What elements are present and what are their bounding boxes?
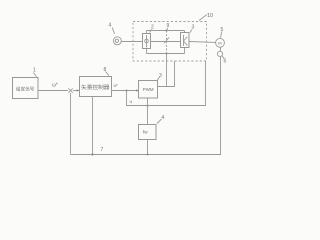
wire Q2 to motor <box>189 41 216 44</box>
right switch top stub <box>184 31 186 33</box>
top rail <box>147 30 185 32</box>
controller box 8 <box>80 77 112 97</box>
shaft wire <box>220 47 222 51</box>
wire block1 to sum <box>38 90 68 92</box>
switch box Q1 <box>143 34 151 49</box>
Q1 inner symbol <box>146 35 148 48</box>
motor circle 5 <box>216 38 225 47</box>
node tap <box>126 90 128 92</box>
label 8 leader <box>106 72 110 76</box>
label 9 leader <box>166 28 169 31</box>
svg-text:4: 4 <box>109 23 112 29</box>
source circle 4 <box>113 37 121 45</box>
module dashed box 10 <box>133 22 207 62</box>
DW box 4 <box>139 125 157 140</box>
label 10 leader <box>199 15 207 21</box>
wire sum feedback <box>70 93 72 155</box>
svg-text:6: 6 <box>224 59 227 65</box>
tach down wire <box>71 57 221 155</box>
svg-text:4: 4 <box>162 115 165 121</box>
wire controller to PWM <box>112 90 139 92</box>
junction top <box>166 30 168 32</box>
label 6 leader <box>222 56 224 59</box>
svg-text:ω*: ω* <box>52 83 58 89</box>
svg-text:矢量控制器: 矢量控制器 <box>81 84 110 91</box>
svg-text:9: 9 <box>167 23 170 29</box>
wire sum to controller <box>73 90 79 92</box>
switch box Q2 <box>181 33 190 48</box>
svg-text:M: M <box>218 41 221 46</box>
node DW bottom <box>147 154 149 156</box>
label 3 leader <box>157 77 159 80</box>
svg-text:3: 3 <box>159 73 162 79</box>
left switch top stub <box>146 31 148 34</box>
PWM box 3 <box>139 81 158 99</box>
wire PWM gate W1 <box>158 61 175 87</box>
S1 blade <box>164 37 169 43</box>
wire PWM to DW <box>147 98 149 124</box>
bottom rail <box>147 53 185 55</box>
svg-text:PWM: PWM <box>143 87 154 92</box>
label 4b leader <box>157 119 162 124</box>
wire mid branch down <box>166 54 168 87</box>
node W2 cross <box>147 105 149 107</box>
summing junction <box>68 88 72 92</box>
svg-text:8: 8 <box>104 67 107 73</box>
label 5 leader <box>221 32 222 38</box>
tach circle 6 <box>217 51 222 56</box>
label 2 leader <box>150 30 152 33</box>
svg-text:2: 2 <box>151 25 154 31</box>
junction bottom <box>166 53 168 55</box>
wire DW to bottom <box>147 140 149 155</box>
wire Q1 to Q2 <box>151 41 181 43</box>
left switch bottom stub <box>146 49 148 54</box>
svg-text:7: 7 <box>101 147 104 153</box>
svg-text:1: 1 <box>33 68 36 74</box>
svg-text:u*: u* <box>114 83 119 88</box>
right switch bottom stub <box>184 48 186 54</box>
svg-text:5: 5 <box>221 27 224 33</box>
label 1 leader <box>34 73 37 77</box>
svg-text:3: 3 <box>192 25 195 31</box>
svg-text:fw: fw <box>143 130 148 135</box>
svg-text:10: 10 <box>207 13 213 19</box>
Q2 inner symbol <box>183 35 185 46</box>
svg-text:给定信号: 给定信号 <box>16 86 35 93</box>
label 3 leader <box>190 30 192 33</box>
label 4 leader <box>112 28 114 34</box>
wire controller feedback <box>92 97 94 155</box>
wire tap W2 <box>127 61 206 106</box>
node bottom <box>91 153 93 155</box>
wire source to Q1 <box>121 41 142 43</box>
middle branch S1 <box>166 31 168 54</box>
block 1 box <box>13 78 39 99</box>
